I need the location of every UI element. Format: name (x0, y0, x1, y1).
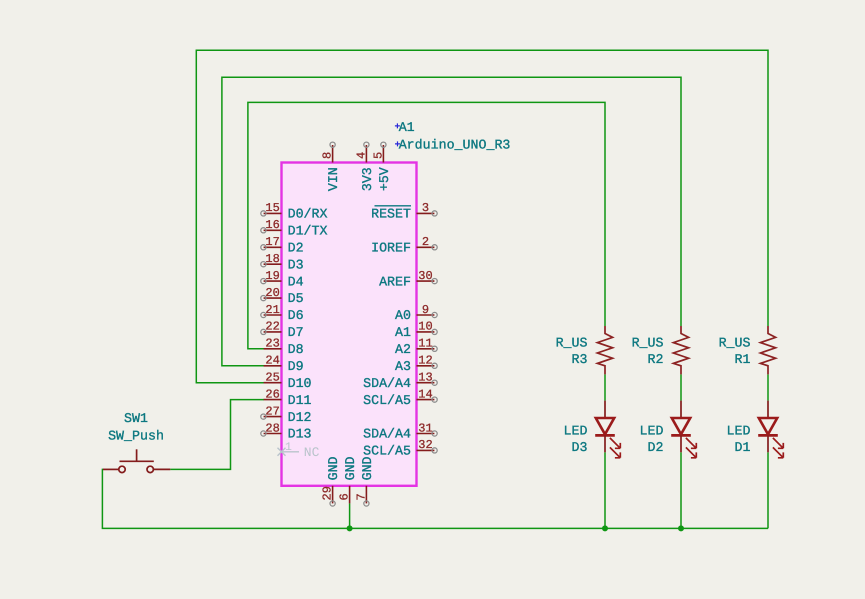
wire D11 to SW1 pin 2 (170, 400, 264, 470)
LED D3 (595, 401, 620, 458)
svg-text:SDA/A4: SDA/A4 (363, 427, 411, 442)
svg-text:AREF: AREF (379, 274, 411, 289)
svg-text:16: 16 (265, 218, 279, 232)
svg-text:R_US: R_US (719, 336, 751, 351)
svg-text:IOREF: IOREF (371, 241, 411, 256)
pin 20 (D5) left (261, 286, 304, 306)
svg-text:29: 29 (321, 486, 335, 500)
svg-text:D11: D11 (288, 393, 312, 408)
svg-text:3V3: 3V3 (360, 167, 375, 191)
svg-text:R_US: R_US (556, 336, 588, 351)
pin 5 (+5V) top (371, 142, 392, 191)
pin 26 (D11) left (264, 387, 312, 407)
svg-text:28: 28 (265, 421, 279, 435)
svg-text:27: 27 (265, 404, 279, 418)
pin 25 (D10) left (264, 371, 312, 391)
svg-text:32: 32 (418, 438, 432, 452)
pin 21 (D6) left (261, 303, 304, 323)
resistor R2 (R_US) (673, 326, 688, 374)
switch SW1 pin 2 stub (154, 468, 170, 470)
svg-text:R_US: R_US (632, 336, 664, 351)
svg-text:18: 18 (265, 252, 279, 266)
pin 3 (RESET) right (371, 201, 437, 221)
svg-text:D5: D5 (288, 291, 304, 306)
pin 16 (D1/TX) left (261, 218, 328, 238)
svg-text:D8: D8 (288, 342, 304, 357)
svg-text:19: 19 (265, 269, 279, 283)
pin 2 (IOREF) right (371, 235, 437, 255)
svg-text:23: 23 (265, 337, 279, 351)
svg-text:R2: R2 (648, 352, 664, 367)
svg-text:R1: R1 (735, 352, 751, 367)
svg-text:D2: D2 (288, 241, 304, 256)
Arduino UNO R3 symbol A1: body (282, 163, 417, 486)
LED D2 (671, 401, 696, 458)
svg-text:24: 24 (265, 354, 279, 368)
svg-text:2: 2 (422, 235, 429, 249)
wire D3 to bus (604, 452, 606, 528)
svg-text:22: 22 (265, 320, 279, 334)
svg-text:D3: D3 (288, 257, 304, 272)
svg-text:+5V: +5V (377, 167, 392, 191)
wire R1 to D1 (767, 374, 769, 400)
svg-text:D3: D3 (572, 440, 588, 455)
svg-text:6: 6 (338, 493, 352, 500)
svg-text:A3: A3 (395, 359, 411, 374)
svg-text:10: 10 (418, 320, 432, 334)
wire D10 to R1 (net through top outer run) (196, 50, 768, 382)
resistor R1 (R_US) (760, 326, 775, 374)
switch SW1 pin 1 stub (103, 468, 119, 470)
pin 29 (GND) bottom (321, 456, 342, 506)
pin 14 (SCL/A5) right (363, 387, 437, 407)
pin 17 (D2) left (261, 235, 304, 255)
svg-text:LED: LED (640, 423, 664, 438)
svg-text:5: 5 (371, 152, 385, 159)
svg-text:GND: GND (360, 456, 375, 480)
pin 9 (A0) right (395, 303, 437, 323)
svg-text:15: 15 (265, 201, 279, 215)
svg-text:A2: A2 (395, 342, 411, 357)
wire D8 to R3 (inner run) (248, 102, 605, 348)
wire D9 to R2 (middle run) (222, 77, 681, 366)
svg-text:14: 14 (418, 387, 432, 401)
svg-text:17: 17 (265, 235, 279, 249)
svg-text:D13: D13 (288, 427, 312, 442)
svg-text:A1: A1 (399, 120, 415, 135)
svg-text:30: 30 (418, 269, 432, 283)
junction at D2 / bus (678, 525, 684, 531)
junction at GND pin 6 / bus (347, 525, 353, 531)
wire R3 to D3 (604, 374, 606, 400)
pin 10 (A1) right (395, 320, 437, 340)
svg-text:SW_Push: SW_Push (108, 429, 164, 444)
svg-text:GND: GND (343, 456, 358, 480)
svg-text:D7: D7 (288, 325, 304, 340)
pin 12 (A3) right (395, 354, 437, 374)
wire D2 to bus (680, 452, 682, 528)
svg-text:D0/RX: D0/RX (288, 207, 328, 222)
resistor R3 (R_US) (597, 326, 612, 374)
pin 31 (SDA/A4) right (363, 421, 437, 441)
svg-text:7: 7 (354, 493, 368, 500)
svg-text:D10: D10 (288, 376, 312, 391)
wire R2 to D2 (680, 374, 682, 400)
pin 30 (AREF) right (379, 269, 437, 289)
svg-text:D9: D9 (288, 359, 304, 374)
svg-text:LED: LED (727, 423, 751, 438)
svg-text:A1: A1 (395, 325, 411, 340)
pin 23 (D8) left (264, 337, 304, 357)
svg-text:1: 1 (285, 441, 292, 454)
value field anchor cross (395, 141, 400, 146)
svg-text:A0: A0 (395, 308, 411, 323)
svg-text:11: 11 (418, 337, 432, 351)
pin 32 (SCL/A5) right (363, 438, 437, 458)
svg-text:D4: D4 (288, 274, 304, 289)
svg-text:31: 31 (418, 421, 432, 435)
svg-text:13: 13 (418, 371, 432, 385)
pin 13 (SDA/A4) right (363, 371, 437, 391)
svg-text:SW1: SW1 (124, 411, 148, 426)
pin 18 (D3) left (261, 252, 304, 272)
pin 22 (D7) left (261, 320, 304, 340)
pin 15 (D0/RX) left (261, 201, 328, 221)
pin 27 (D12) left (261, 404, 312, 424)
reference field A1 anchor cross (395, 123, 400, 128)
svg-text:20: 20 (265, 286, 279, 300)
svg-text:Arduino_UNO_R3: Arduino_UNO_R3 (399, 138, 511, 153)
wire D1 to bus (767, 452, 769, 528)
svg-text:D2: D2 (648, 440, 664, 455)
svg-text:D1: D1 (735, 440, 751, 455)
svg-text:D6: D6 (288, 308, 304, 323)
svg-text:12: 12 (418, 354, 432, 368)
pin 6 (GND) bottom (338, 456, 359, 503)
svg-text:D1/TX: D1/TX (288, 224, 328, 239)
svg-text:3: 3 (422, 201, 429, 215)
switch SW1 contacts and actuator (119, 449, 154, 472)
pin 4 (3V3) top (354, 142, 375, 191)
svg-text:4: 4 (354, 152, 368, 159)
svg-text:VIN: VIN (326, 167, 341, 191)
svg-text:GND: GND (326, 456, 341, 480)
svg-text:SDA/A4: SDA/A4 (363, 376, 411, 391)
svg-text:26: 26 (265, 387, 279, 401)
svg-text:25: 25 (265, 371, 279, 385)
pin 11 (A2) right (395, 337, 437, 357)
wire SW1 pin 1 to GND bus (bottom) (102, 469, 768, 528)
pin 28 (D13) left (261, 421, 312, 441)
wire GND pin 6 to bus (349, 503, 351, 528)
svg-text:8: 8 (321, 152, 335, 159)
LED D1 (758, 401, 783, 458)
pin 19 (D4) left (261, 269, 304, 289)
svg-text:LED: LED (564, 423, 588, 438)
svg-text:NC: NC (304, 445, 320, 460)
svg-text:SCL/A5: SCL/A5 (363, 444, 411, 459)
svg-text:R3: R3 (572, 352, 588, 367)
svg-text:21: 21 (265, 303, 279, 317)
svg-text:RESET: RESET (371, 207, 411, 222)
svg-text:9: 9 (422, 303, 429, 317)
junction at D3 / bus (602, 525, 608, 531)
pin 1 (NC, no-connect) (278, 441, 320, 460)
pin 24 (D9) left (264, 354, 304, 374)
svg-text:D12: D12 (288, 410, 312, 425)
svg-text:SCL/A5: SCL/A5 (363, 393, 411, 408)
pin 8 (VIN) top (321, 142, 342, 191)
pin 7 (GND) bottom (354, 456, 375, 506)
